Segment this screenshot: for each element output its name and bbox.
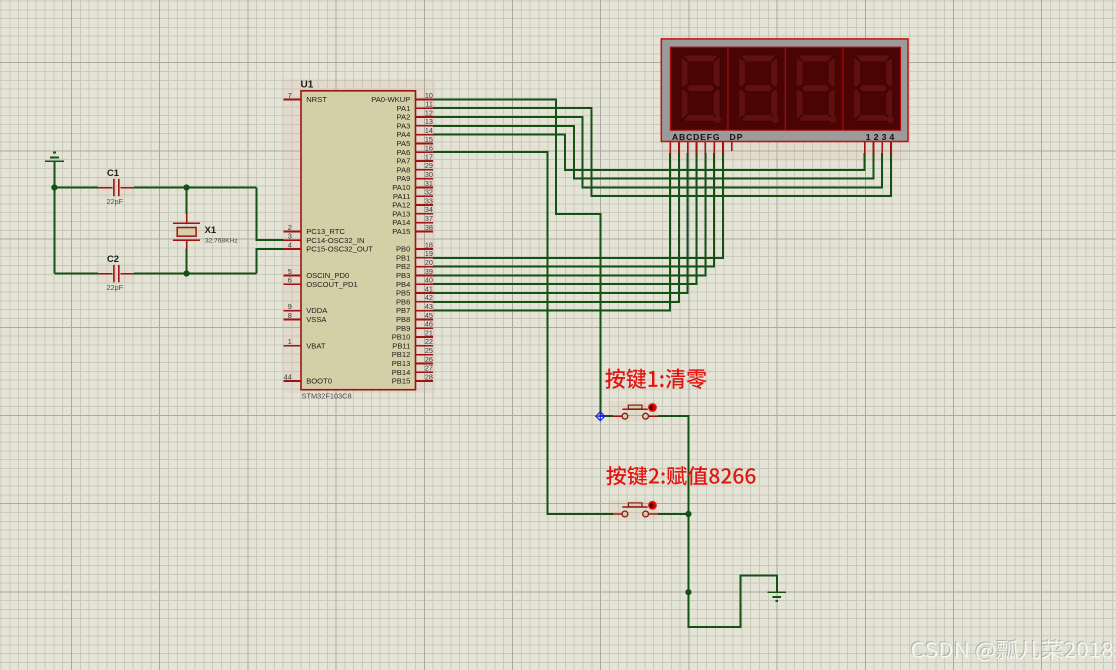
svg-text:7: 7: [288, 91, 292, 100]
svg-text:PA7: PA7: [397, 157, 411, 166]
svg-text:42: 42: [425, 293, 433, 302]
svg-text:14: 14: [425, 126, 433, 135]
svg-text:PB13: PB13: [392, 359, 411, 368]
svg-text:PA4: PA4: [397, 130, 411, 139]
svg-text:6: 6: [288, 276, 292, 285]
svg-text:C2: C2: [107, 253, 119, 264]
svg-text:19: 19: [425, 249, 433, 258]
svg-text:37: 37: [425, 214, 433, 223]
svg-text:C1: C1: [107, 167, 119, 178]
svg-text:3: 3: [288, 232, 292, 241]
svg-text:PA14: PA14: [392, 218, 410, 227]
svg-text:1: 1: [288, 337, 292, 346]
svg-text:PA2: PA2: [397, 113, 411, 122]
svg-text:PA13: PA13: [392, 209, 410, 218]
svg-text:PA12: PA12: [392, 201, 410, 210]
svg-text:OSCOUT_PD1: OSCOUT_PD1: [306, 280, 357, 289]
svg-text:PA15: PA15: [392, 227, 410, 236]
svg-text:8: 8: [288, 311, 292, 320]
svg-text:PB7: PB7: [396, 306, 410, 315]
svg-text:PB3: PB3: [396, 271, 410, 280]
svg-text:39: 39: [425, 267, 433, 276]
svg-text:PB4: PB4: [396, 280, 410, 289]
svg-text:PB1: PB1: [396, 253, 410, 262]
svg-text:PB2: PB2: [396, 262, 410, 271]
svg-text:PB6: PB6: [396, 297, 410, 306]
svg-text:27: 27: [425, 364, 433, 373]
svg-text:BOOT0: BOOT0: [306, 377, 332, 386]
svg-text:4: 4: [288, 240, 292, 249]
svg-text:PB9: PB9: [396, 324, 410, 333]
svg-text:PB8: PB8: [396, 315, 410, 324]
svg-text:40: 40: [425, 276, 433, 285]
svg-text:PA8: PA8: [397, 165, 411, 174]
svg-text:25: 25: [425, 346, 433, 355]
svg-text:PB5: PB5: [396, 289, 410, 298]
svg-text:PB10: PB10: [392, 333, 411, 342]
svg-text:PA1: PA1: [397, 104, 411, 113]
svg-text:11: 11: [425, 100, 432, 109]
svg-text:31: 31: [425, 179, 433, 188]
svg-text:ABCDEFG: ABCDEFG: [672, 132, 720, 142]
svg-text:21: 21: [425, 328, 433, 337]
svg-text:22: 22: [425, 337, 433, 346]
svg-text:16: 16: [425, 144, 433, 153]
svg-text:5: 5: [288, 267, 292, 276]
svg-text:20: 20: [425, 258, 433, 267]
svg-text:22pF: 22pF: [107, 197, 124, 206]
svg-text:46: 46: [425, 320, 433, 329]
svg-text:PB12: PB12: [392, 350, 411, 359]
svg-text:PA5: PA5: [397, 139, 411, 148]
svg-text:PB11: PB11: [392, 341, 410, 350]
svg-text:17: 17: [425, 152, 433, 161]
svg-text:26: 26: [425, 355, 433, 364]
svg-text:DP: DP: [730, 132, 743, 142]
svg-text:10: 10: [425, 91, 433, 100]
svg-text:STM32F103C8: STM32F103C8: [302, 392, 352, 401]
svg-text:22pF: 22pF: [107, 283, 124, 292]
svg-text:45: 45: [425, 311, 433, 320]
svg-text:PA10: PA10: [392, 183, 410, 192]
svg-text:PC14-OSC32_IN: PC14-OSC32_IN: [306, 236, 364, 245]
svg-text:41: 41: [425, 284, 433, 293]
svg-text:U1: U1: [301, 80, 314, 91]
svg-text:30: 30: [425, 170, 433, 179]
svg-text:34: 34: [425, 205, 433, 214]
svg-text:15: 15: [425, 135, 433, 144]
svg-text:VDDA: VDDA: [306, 306, 328, 315]
svg-text:38: 38: [425, 223, 433, 232]
svg-text:PB14: PB14: [392, 368, 411, 377]
svg-text:PA0-WKUP: PA0-WKUP: [371, 95, 410, 104]
svg-text:PC15-OSC32_OUT: PC15-OSC32_OUT: [306, 245, 373, 254]
svg-text:NRST: NRST: [306, 95, 327, 104]
svg-text:PB15: PB15: [392, 377, 411, 386]
svg-text:PA3: PA3: [397, 121, 411, 130]
svg-text:13: 13: [425, 117, 433, 126]
svg-text:44: 44: [284, 372, 292, 381]
svg-text:PA6: PA6: [397, 148, 411, 157]
svg-text:29: 29: [425, 161, 433, 170]
svg-text:PA11: PA11: [393, 192, 410, 201]
svg-text:PC13_RTC: PC13_RTC: [306, 227, 345, 236]
svg-text:X1: X1: [205, 224, 216, 235]
svg-text:28: 28: [425, 372, 433, 381]
svg-text:33: 33: [425, 196, 433, 205]
svg-text:43: 43: [425, 302, 433, 311]
svg-text:9: 9: [288, 302, 292, 311]
svg-text:2: 2: [288, 223, 292, 232]
svg-text:32.768KHz: 32.768KHz: [205, 237, 238, 244]
svg-text:PB0: PB0: [396, 245, 410, 254]
svg-text:18: 18: [425, 240, 433, 249]
svg-text:PA9: PA9: [397, 174, 411, 183]
svg-text:OSCIN_PD0: OSCIN_PD0: [306, 271, 349, 280]
svg-text:12: 12: [425, 108, 433, 117]
svg-text:32: 32: [425, 188, 433, 197]
svg-text:VSSA: VSSA: [306, 315, 327, 324]
svg-text:VBAT: VBAT: [306, 341, 326, 350]
